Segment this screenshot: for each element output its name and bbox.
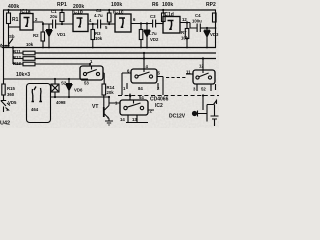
svg-text:11: 11 [186,70,191,75]
svg-text:U42: U42 [0,121,10,127]
svg-text:RP1: RP1 [57,2,67,8]
svg-text:4.7u: 4.7u [94,13,103,18]
svg-text:Sb: Sb [9,34,15,39]
svg-text:10k×3: 10k×3 [16,72,30,78]
svg-text:VD1: VD1 [57,32,66,37]
svg-text:IC1a: IC1a [20,9,31,15]
svg-text:VD3: VD3 [210,32,219,37]
svg-text:84: 84 [138,86,143,91]
svg-text:IC1b: IC1b [72,10,83,16]
svg-text:10k: 10k [95,36,103,41]
svg-text:R2: R2 [33,33,39,38]
svg-text:IC2: IC2 [155,103,163,109]
svg-text:100k: 100k [111,2,122,8]
svg-text:R12: R12 [13,55,21,60]
svg-text:VD5: VD5 [8,100,17,105]
svg-text:VD6: VD6 [74,88,83,93]
svg-text:R11: R11 [13,49,21,54]
svg-text:R1: R1 [12,17,19,23]
svg-text:DC12V: DC12V [169,114,186,120]
svg-text:CD4066: CD4066 [150,97,169,103]
svg-text:IC1d: IC1d [163,12,174,18]
svg-text:C4: C4 [195,13,201,18]
svg-text:53: 53 [84,81,89,86]
svg-text:10k: 10k [181,36,189,41]
svg-text:100u: 100u [192,19,202,24]
svg-text:400k: 400k [8,4,19,10]
svg-text:12: 12 [199,64,204,69]
svg-text:R15: R15 [7,86,15,91]
svg-text:R7: R7 [181,30,187,35]
svg-text:12: 12 [182,17,187,22]
svg-text:C3: C3 [150,14,156,19]
svg-text:464: 464 [31,107,39,112]
svg-text:10k: 10k [26,42,34,47]
svg-text:4098: 4098 [56,100,66,105]
svg-text:VD2: VD2 [150,37,159,42]
svg-text:S2: S2 [61,81,67,86]
svg-text:R6: R6 [152,2,159,8]
svg-text:IC1c: IC1c [113,10,124,16]
svg-text:20u: 20u [50,14,58,19]
svg-text:R13: R13 [13,61,21,66]
svg-text:360: 360 [7,92,15,97]
svg-text:VT: VT [92,104,98,110]
svg-text:14: 14 [120,117,125,122]
svg-text:54: 54 [139,95,144,100]
svg-text:4.7u: 4.7u [148,31,157,36]
svg-text:RP2: RP2 [206,2,216,8]
svg-text:13: 13 [132,117,137,122]
svg-text:20k: 20k [107,90,115,95]
svg-text:52: 52 [201,87,206,92]
svg-text:100k: 100k [162,2,173,8]
